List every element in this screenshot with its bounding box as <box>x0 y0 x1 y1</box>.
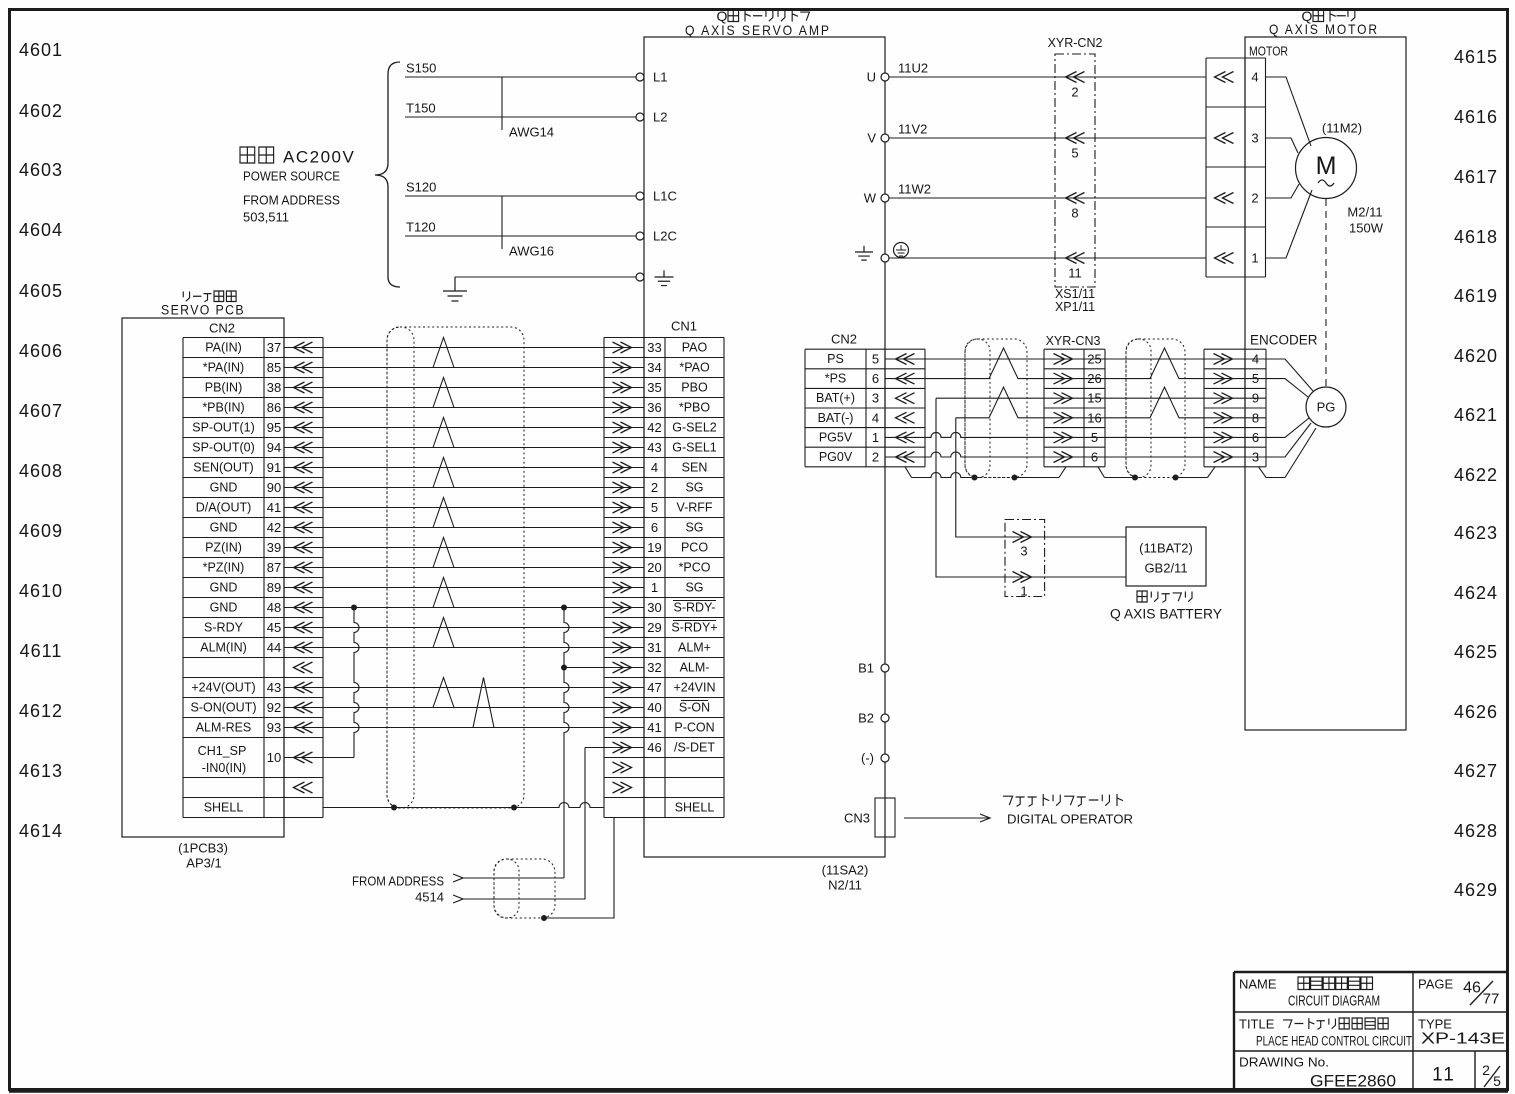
svg-text:XS1/11: XS1/11 <box>1055 287 1095 301</box>
svg-text:POWER SOURCE: POWER SOURCE <box>243 169 340 184</box>
svg-text:AP3/1: AP3/1 <box>186 856 221 871</box>
svg-text:40: 40 <box>647 700 661 715</box>
svg-text:SHELL: SHELL <box>204 801 244 815</box>
svg-text:39: 39 <box>267 540 281 555</box>
svg-text:20: 20 <box>647 560 661 575</box>
wire GND48/ALM- to FROM ADDRESS (vertical) <box>564 608 569 879</box>
svg-text:CN1: CN1 <box>671 319 697 334</box>
svg-text:43: 43 <box>267 680 281 695</box>
svg-text:PBO: PBO <box>681 381 708 395</box>
svg-text:CN2: CN2 <box>831 332 857 347</box>
from address 4514 labels <box>352 874 463 905</box>
svg-text:CH1_SP: CH1_SP <box>198 744 247 758</box>
cable tie AWG16 <box>502 196 554 259</box>
svg-text:47: 47 <box>647 680 661 695</box>
svg-text:PG: PG <box>1317 400 1336 415</box>
svg-text:SHELL: SHELL <box>675 801 715 815</box>
wire BAT(+) to battery (vertical) <box>936 398 1126 577</box>
svg-text:42: 42 <box>647 420 661 435</box>
svg-text:31: 31 <box>647 640 661 655</box>
svg-text:4613: 4613 <box>19 761 63 781</box>
svg-text:4604: 4604 <box>19 220 63 240</box>
svg-text:V: V <box>867 131 876 146</box>
svg-text:2: 2 <box>1482 1062 1490 1078</box>
svg-text:ALM-: ALM- <box>680 661 710 675</box>
terminal L1 <box>636 70 667 85</box>
svg-text:4: 4 <box>872 410 879 425</box>
svg-text:S120: S120 <box>406 180 436 195</box>
svg-text:11: 11 <box>1432 1065 1456 1086</box>
shell drain wire <box>323 803 604 808</box>
svg-text:L1C: L1C <box>653 189 677 204</box>
svg-text:4617: 4617 <box>1454 167 1498 187</box>
svg-text:4619: 4619 <box>1454 286 1498 306</box>
motor M2/11 (11M2) <box>1266 77 1384 258</box>
svg-text:ALM-RES: ALM-RES <box>196 721 252 735</box>
row reference numbers left margin 4601-4614 <box>19 40 63 841</box>
svg-text:4606: 4606 <box>19 341 63 361</box>
cable shield from-address (dotted) <box>494 859 555 918</box>
power source label block <box>240 147 355 225</box>
terminal B2 <box>858 711 889 726</box>
svg-text:30: 30 <box>647 600 661 615</box>
svg-text:2: 2 <box>1071 85 1078 100</box>
svg-text:90: 90 <box>267 480 281 495</box>
svg-text:11: 11 <box>1068 266 1082 281</box>
svg-text:5: 5 <box>1493 1073 1501 1089</box>
svg-text:XYR-CN3: XYR-CN3 <box>1046 334 1101 348</box>
svg-text:38: 38 <box>267 380 281 395</box>
svg-text:4627: 4627 <box>1454 761 1498 781</box>
svg-text:GND: GND <box>210 581 238 595</box>
wire PG0V <box>885 452 1044 457</box>
svg-text:PG0V: PG0V <box>819 450 853 464</box>
terminal L1C <box>636 189 677 204</box>
wires through connector cells <box>1044 359 1266 457</box>
svg-text:(11SA2): (11SA2) <box>822 863 869 878</box>
dashed link motor to PG <box>1325 199 1327 386</box>
wire BAT(-) with twist <box>956 387 1044 418</box>
svg-text:S-ON(OUT): S-ON(OUT) <box>191 701 257 715</box>
svg-text:TYPE: TYPE <box>1418 1017 1452 1032</box>
svg-text:L1: L1 <box>653 70 667 85</box>
svg-text:35: 35 <box>647 380 661 395</box>
svg-text:2: 2 <box>872 450 879 465</box>
svg-text:6: 6 <box>872 371 879 386</box>
svg-text:*PAO: *PAO <box>679 361 710 375</box>
svg-text:46: 46 <box>1463 980 1481 997</box>
signal wires servo pcb CN2 to CN1 <box>284 348 644 758</box>
svg-text:5: 5 <box>651 500 658 515</box>
connector XYR-CN2 <box>1048 36 1103 314</box>
svg-text:86: 86 <box>267 400 281 415</box>
svg-text:GND: GND <box>210 481 238 495</box>
wire S120 <box>405 180 636 197</box>
svg-text:*PBO: *PBO <box>679 401 711 415</box>
svg-text:4602: 4602 <box>19 101 63 121</box>
svg-text:XYR-CN2: XYR-CN2 <box>1048 36 1103 50</box>
svg-text:4605: 4605 <box>19 281 63 301</box>
svg-text:43: 43 <box>647 440 661 455</box>
svg-text:19: 19 <box>647 540 661 555</box>
connector CN1 servo amp <box>604 319 724 818</box>
svg-text:10: 10 <box>267 750 281 765</box>
svg-text:87: 87 <box>267 560 281 575</box>
svg-text:XP-143E: XP-143E <box>1421 1031 1505 1048</box>
svg-text:*PB(IN): *PB(IN) <box>202 401 244 415</box>
svg-text:P-CON: P-CON <box>674 721 714 735</box>
svg-text:SG: SG <box>685 581 703 595</box>
svg-text:PG5V: PG5V <box>819 430 853 444</box>
terminal B1 <box>858 661 889 676</box>
shield drain to shell (right) <box>544 818 614 919</box>
svg-text:4618: 4618 <box>1454 227 1498 247</box>
svg-text:B2: B2 <box>858 711 874 726</box>
wire PG5V <box>885 432 1044 437</box>
svg-text:SG: SG <box>685 521 703 535</box>
svg-text:GND: GND <box>210 521 238 535</box>
svg-text:FROM ADDRESS: FROM ADDRESS <box>352 874 444 889</box>
svg-text:4611: 4611 <box>20 641 63 661</box>
connector XYR-CN3 <box>1044 334 1105 467</box>
svg-text:DIGITAL OPERATOR: DIGITAL OPERATOR <box>1007 812 1133 827</box>
svg-text:92: 92 <box>267 700 281 715</box>
svg-text:NAME: NAME <box>1239 977 1277 992</box>
svg-text:N2/11: N2/11 <box>828 878 862 893</box>
svg-text:4621: 4621 <box>1454 405 1498 425</box>
svg-text:45: 45 <box>267 620 281 635</box>
svg-text:44: 44 <box>267 640 281 655</box>
svg-text:3: 3 <box>1251 131 1258 146</box>
wire earth input <box>455 276 636 278</box>
svg-text:DRAWING No.: DRAWING No. <box>1239 1055 1329 1070</box>
svg-text:Q AXIS BATTERY: Q AXIS BATTERY <box>1110 607 1222 622</box>
wire PS <box>885 358 1044 360</box>
wire T120 <box>405 220 636 237</box>
svg-text:93: 93 <box>267 720 281 735</box>
svg-text:ALM+: ALM+ <box>678 641 711 655</box>
ground symbol <box>443 277 467 301</box>
svg-text:3: 3 <box>1020 544 1027 559</box>
battery connector <box>1005 520 1045 599</box>
svg-text:5: 5 <box>1071 146 1078 161</box>
svg-text:4616: 4616 <box>1454 107 1498 127</box>
svg-text:D/A(OUT): D/A(OUT) <box>196 501 252 515</box>
svg-text:36: 36 <box>647 400 661 415</box>
svg-text:/S-DET: /S-DET <box>674 741 715 755</box>
svg-text:SG: SG <box>685 481 703 495</box>
MOTOR connector <box>1206 58 1266 277</box>
svg-text:11W2: 11W2 <box>898 182 931 197</box>
cable shield amp-to-XYRCN3 (dotted) <box>965 339 1027 478</box>
svg-text:1: 1 <box>651 580 658 595</box>
svg-text:4: 4 <box>651 460 658 475</box>
svg-text:S150: S150 <box>406 61 436 76</box>
ENCODER connector <box>1204 333 1318 467</box>
svg-text:(-): (-) <box>861 751 874 766</box>
svg-text:4607: 4607 <box>19 401 63 421</box>
svg-text:32: 32 <box>647 660 661 675</box>
wire BAT(-) to battery (vertical) <box>956 418 1126 537</box>
svg-text:BAT(+): BAT(+) <box>816 391 855 405</box>
svg-text:41: 41 <box>267 500 281 515</box>
svg-text:SERVO PCB: SERVO PCB <box>161 303 245 318</box>
svg-text:(11M2): (11M2) <box>1322 121 1362 136</box>
svg-text:89: 89 <box>267 580 281 595</box>
cable shield XYRCN3-to-encoder (dotted) <box>1126 339 1185 478</box>
terminal W and wire 11W2 <box>864 182 1206 206</box>
svg-text:CN3: CN3 <box>844 811 870 826</box>
svg-text:5: 5 <box>872 352 879 367</box>
svg-text:1: 1 <box>872 430 879 445</box>
svg-text:SEN(OUT): SEN(OUT) <box>193 461 253 475</box>
svg-text:ENCODER: ENCODER <box>1250 333 1318 348</box>
svg-text:MOTOR: MOTOR <box>1249 44 1288 59</box>
connector CN3 <box>844 798 895 837</box>
svg-text:29: 29 <box>647 620 661 635</box>
svg-text:PB(IN): PB(IN) <box>205 381 243 395</box>
svg-text:4614: 4614 <box>19 821 63 841</box>
svg-text:*PZ(IN): *PZ(IN) <box>203 561 245 575</box>
svg-text:S-RDY+: S-RDY+ <box>671 621 717 635</box>
connector CN2 servo pcb <box>183 321 323 818</box>
svg-text:PCO: PCO <box>681 541 708 555</box>
cable tie AWG14 <box>502 77 554 140</box>
svg-text:GND: GND <box>210 601 238 615</box>
svg-text:CIRCUIT DIAGRAM: CIRCUIT DIAGRAM <box>1288 994 1380 1010</box>
wire *PS with twist <box>885 348 1044 379</box>
svg-text:V-RFF: V-RFF <box>676 501 712 515</box>
svg-text:AC200V: AC200V <box>283 148 355 167</box>
svg-text:11U2: 11U2 <box>898 61 928 76</box>
svg-text:T120: T120 <box>406 220 436 235</box>
svg-text:77: 77 <box>1483 991 1500 1008</box>
title block <box>1234 972 1507 1091</box>
svg-text:Q AXIS MOTOR: Q AXIS MOTOR <box>1269 21 1379 37</box>
svg-text:CN2: CN2 <box>209 321 235 336</box>
svg-text:PS: PS <box>827 352 844 366</box>
svg-text:85: 85 <box>267 360 281 375</box>
wire T150 <box>405 101 636 118</box>
svg-text:95: 95 <box>267 420 281 435</box>
svg-text:8: 8 <box>1071 206 1078 221</box>
svg-text:4626: 4626 <box>1454 702 1498 722</box>
svg-text:B1: B1 <box>858 661 874 676</box>
terminal U and wire 11U2 <box>867 61 1206 85</box>
svg-text:L2C: L2C <box>653 229 677 244</box>
svg-text:41: 41 <box>647 720 661 735</box>
svg-text:2: 2 <box>1251 191 1258 206</box>
terminal L2 <box>636 110 667 125</box>
svg-text:3: 3 <box>872 391 879 406</box>
svg-text:SP-OUT(0): SP-OUT(0) <box>192 441 255 455</box>
svg-text:4514: 4514 <box>415 890 444 905</box>
svg-text:+24V(OUT): +24V(OUT) <box>191 681 255 695</box>
svg-text:4603: 4603 <box>19 160 63 180</box>
wire GND48 to CH1_SP (vertical) <box>354 608 359 758</box>
motor box Q AXIS MOTOR <box>1245 8 1406 730</box>
svg-text:PAGE: PAGE <box>1418 977 1453 992</box>
svg-text:4615: 4615 <box>1454 47 1498 67</box>
svg-text:PAO: PAO <box>682 341 708 355</box>
svg-text:4612: 4612 <box>19 701 63 721</box>
svg-text:4610: 4610 <box>19 581 63 601</box>
servo amp designator (11SA2) N2/11 <box>822 863 869 893</box>
terminal earth left <box>636 270 674 285</box>
svg-text:4628: 4628 <box>1454 821 1498 841</box>
svg-text:(11BAT2): (11BAT2) <box>1139 541 1193 556</box>
svg-text:SEN: SEN <box>682 461 708 475</box>
svg-text:S-ON: S-ON <box>679 701 710 715</box>
svg-text:91: 91 <box>267 460 281 475</box>
svg-text:W: W <box>864 191 877 206</box>
svg-text:BAT(-): BAT(-) <box>818 411 854 425</box>
svg-text:48: 48 <box>267 600 281 615</box>
power source brace <box>375 62 400 287</box>
shield drain wires encoder cables <box>905 428 1316 481</box>
connector CN2 servo amp right <box>805 332 925 467</box>
svg-text:4624: 4624 <box>1454 583 1498 603</box>
svg-text:AWG14: AWG14 <box>509 125 554 140</box>
svg-text:PZ(IN): PZ(IN) <box>205 541 242 555</box>
svg-text:GB2/11: GB2/11 <box>1144 561 1187 576</box>
terminal (-) <box>861 751 889 766</box>
svg-text:FROM ADDRESS: FROM ADDRESS <box>243 193 340 208</box>
svg-text:42: 42 <box>267 520 281 535</box>
svg-text:94: 94 <box>267 440 281 455</box>
svg-text:M2/11: M2/11 <box>1347 205 1382 220</box>
digital operator arrow and label <box>904 794 1133 827</box>
cable shield left (dotted) <box>387 327 524 808</box>
terminal earth output <box>855 243 1206 263</box>
svg-text:4608: 4608 <box>19 461 63 481</box>
wire S150 <box>405 61 636 78</box>
svg-text:4601: 4601 <box>19 40 63 60</box>
svg-text:Q AXIS SERVO AMP: Q AXIS SERVO AMP <box>685 22 831 38</box>
svg-text:T150: T150 <box>406 101 436 116</box>
svg-text:SP-OUT(1): SP-OUT(1) <box>192 421 255 435</box>
svg-text:U: U <box>867 70 876 85</box>
svg-text:*PA(IN): *PA(IN) <box>203 361 244 375</box>
svg-text:46: 46 <box>647 740 661 755</box>
svg-text:L2: L2 <box>653 110 667 125</box>
svg-text:4620: 4620 <box>1454 346 1498 366</box>
encoder PG <box>1266 359 1346 457</box>
row reference numbers right margin 4615-4629 <box>1454 47 1498 900</box>
svg-text:33: 33 <box>647 340 661 355</box>
svg-text:2: 2 <box>651 480 658 495</box>
svg-text:1: 1 <box>1251 251 1258 266</box>
battery GB2/11 (11BAT2) <box>1110 527 1222 622</box>
svg-text:GFEE2860: GFEE2860 <box>1310 1072 1396 1091</box>
twisted pair symbols left cable <box>433 338 494 728</box>
svg-text:TITLE: TITLE <box>1239 1017 1275 1032</box>
svg-text:4623: 4623 <box>1454 523 1498 543</box>
svg-text:150W: 150W <box>1349 221 1384 236</box>
svg-text:-IN0(IN): -IN0(IN) <box>202 761 246 775</box>
svg-text:S-RDY-: S-RDY- <box>674 601 716 615</box>
svg-text:4625: 4625 <box>1454 642 1498 662</box>
svg-text:PLACE HEAD CONTROL CIRCUIT: PLACE HEAD CONTROL CIRCUIT <box>1256 1034 1412 1049</box>
svg-text:S-RDY: S-RDY <box>204 621 244 635</box>
svg-text:XP1/11: XP1/11 <box>1055 300 1095 314</box>
svg-text:PA(IN): PA(IN) <box>205 341 242 355</box>
svg-text:4622: 4622 <box>1454 465 1498 485</box>
svg-text:1: 1 <box>1020 584 1027 599</box>
svg-text:*PS: *PS <box>825 372 847 386</box>
svg-text:G-SEL1: G-SEL1 <box>672 441 717 455</box>
svg-text:34: 34 <box>647 360 661 375</box>
svg-text:6: 6 <box>651 520 658 535</box>
svg-text:4609: 4609 <box>19 521 63 541</box>
wire BAT(+) <box>936 397 1044 399</box>
servo pcb box AP3/1 (1PCB3) <box>122 291 284 871</box>
svg-text:AWG16: AWG16 <box>509 244 554 259</box>
svg-text:11V2: 11V2 <box>898 122 927 137</box>
servo amp box Q AXIS SERVO AMP <box>644 8 885 857</box>
svg-text:G-SEL2: G-SEL2 <box>672 421 717 435</box>
terminal V and wire 11V2 <box>867 122 1206 146</box>
svg-text:4629: 4629 <box>1454 880 1498 900</box>
wire /S-DET to FROM ADDRESS 4514 (vertical) <box>463 748 585 900</box>
svg-text:503,511: 503,511 <box>243 210 289 225</box>
svg-text:ALM(IN): ALM(IN) <box>200 641 247 655</box>
svg-text:37: 37 <box>267 340 281 355</box>
terminal L2C <box>636 229 677 244</box>
svg-text:*PCO: *PCO <box>679 561 711 575</box>
svg-text:(1PCB3): (1PCB3) <box>178 841 228 856</box>
svg-text:4: 4 <box>1251 70 1258 85</box>
svg-text:M: M <box>1316 152 1337 180</box>
svg-text:+24VIN: +24VIN <box>673 681 715 695</box>
